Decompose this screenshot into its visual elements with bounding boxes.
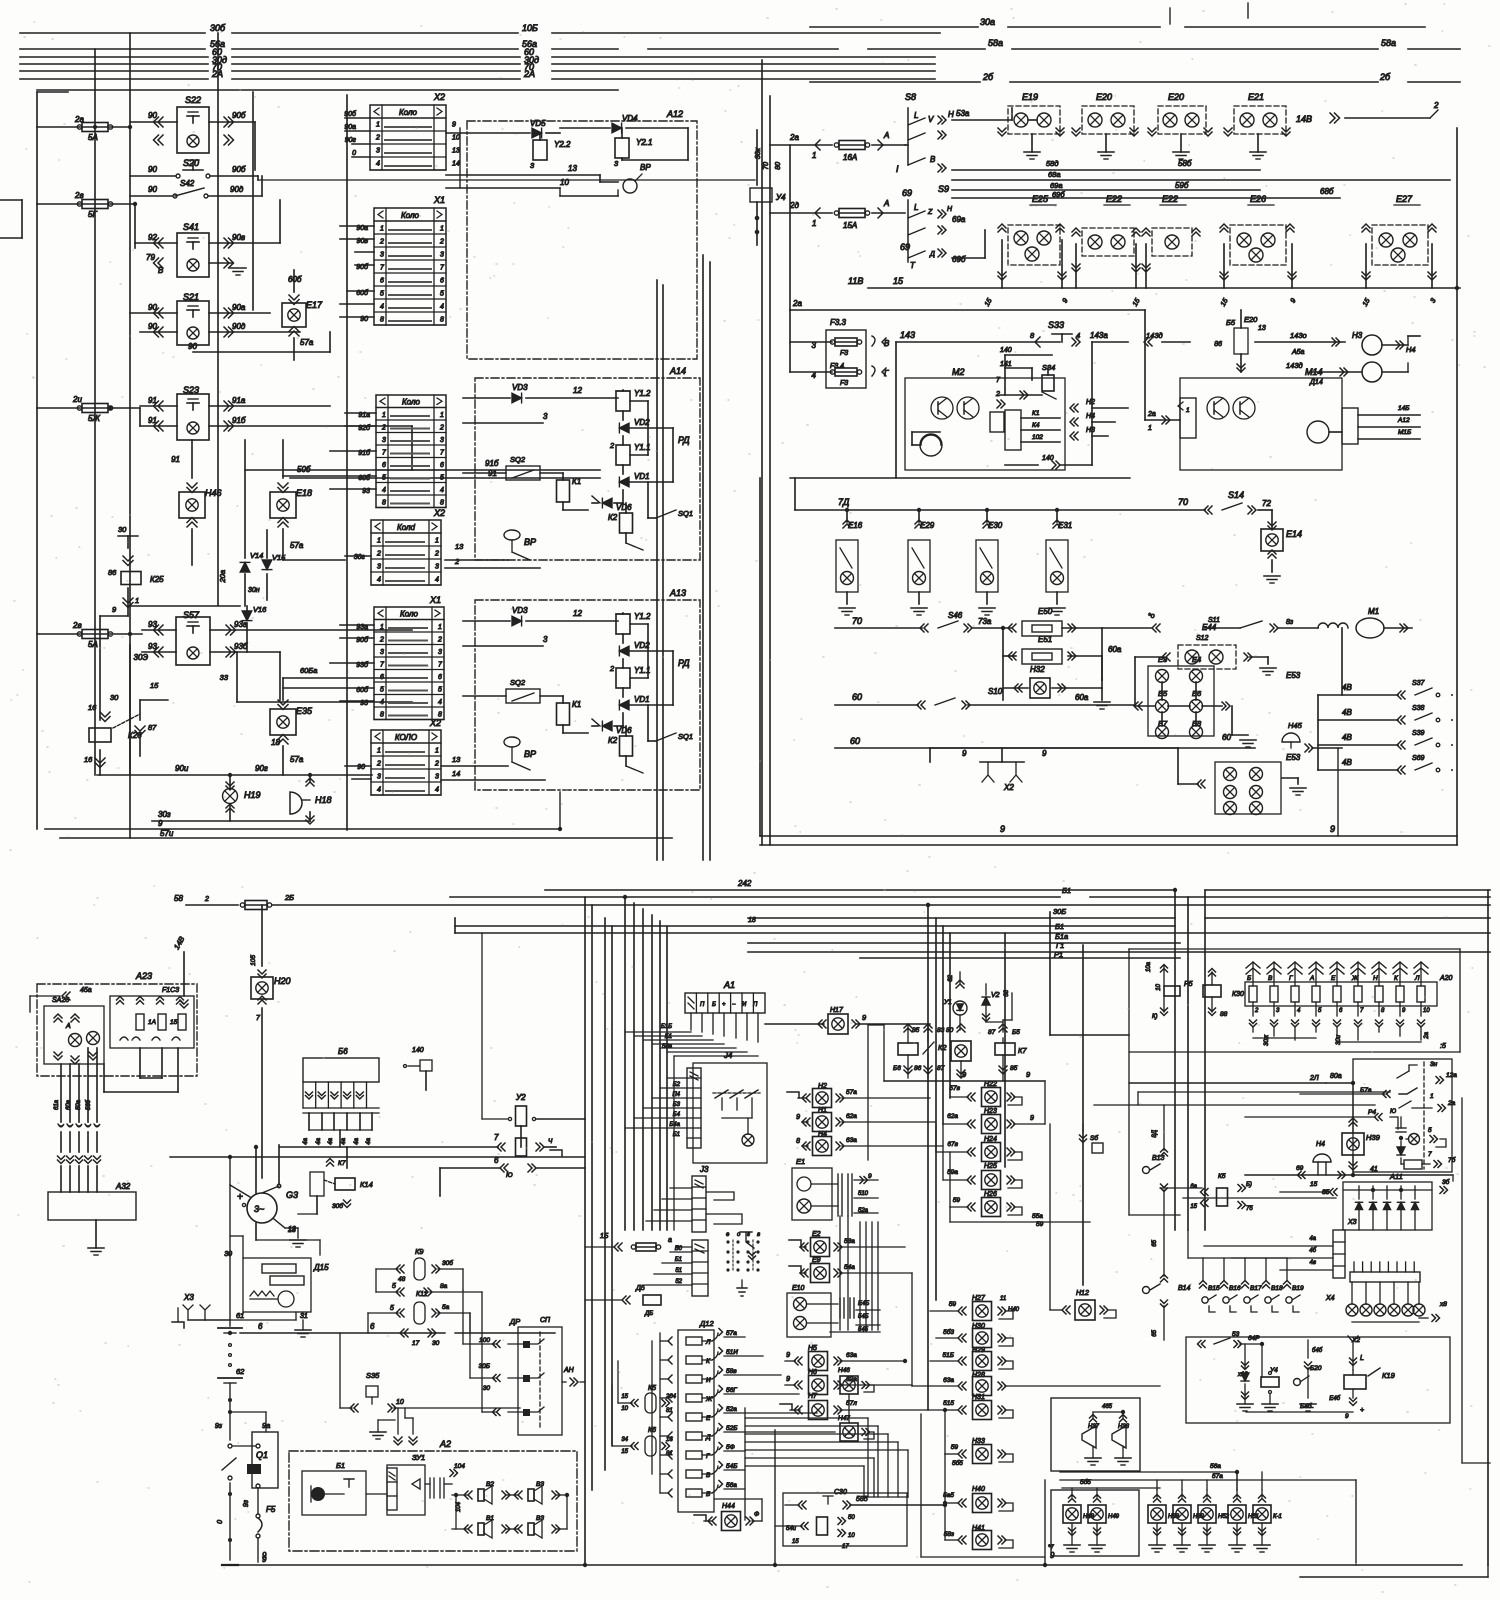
svg-text:5: 5 [440, 291, 444, 298]
svg-text:Е19: Е19 [1022, 92, 1038, 102]
svg-text:Е6: Е6 [1192, 689, 1202, 698]
svg-text:1: 1 [812, 151, 816, 160]
wire bundle below E1 [859, 1222, 861, 1330]
svg-text:58в: 58в [726, 1368, 737, 1375]
svg-text:К1: К1 [1032, 410, 1040, 417]
svg-text:Н49: Н49 [1108, 1514, 1120, 1520]
svg-text:10: 10 [1423, 1008, 1430, 1014]
svg-text:Н: Н [947, 206, 953, 213]
svg-text:143д: 143д [1146, 331, 1163, 340]
svg-text:8: 8 [796, 1138, 800, 1145]
svg-text:К6: К6 [648, 1427, 656, 1434]
svg-text:Н3: Н3 [1352, 331, 1363, 340]
vertical trunk x625-667 table feeders [624, 897, 626, 1230]
wire bus 18 [455, 925, 1175, 927]
svg-text:100: 100 [479, 1337, 490, 1344]
svg-text:Е22: Е22 [1162, 194, 1178, 204]
svg-text:54и: 54и [786, 1526, 797, 1532]
assembly A23 dash border [37, 984, 197, 1076]
lamp Н17 [765, 1023, 824, 1025]
svg-text:SQ1: SQ1 [678, 509, 693, 518]
svg-text:93а: 93а [234, 620, 248, 629]
relay К7b [995, 1043, 1015, 1055]
svg-text:3: 3 [543, 635, 548, 644]
svg-text:51И: 51И [726, 1349, 738, 1356]
svg-text:Е21: Е21 [1248, 92, 1264, 102]
svg-text:Н20: Н20 [274, 976, 291, 986]
svg-text:5: 5 [440, 475, 444, 482]
svg-text:9: 9 [262, 1555, 267, 1564]
svg-text:57а: 57а [1212, 1473, 1223, 1480]
relay К8 [898, 1043, 918, 1055]
svg-text:30б: 30б [332, 1202, 343, 1210]
svg-text:В18: В18 [1271, 1285, 1283, 1292]
svg-text:Н32: Н32 [1030, 665, 1045, 674]
svg-text:Б5: Б5 [1012, 1029, 1020, 1036]
svg-text:2: 2 [609, 664, 615, 673]
diode А11 pin [1397, 1202, 1404, 1209]
steering switch ВР mid [504, 530, 520, 540]
fuse панель В [1270, 986, 1278, 1002]
svg-text:9: 9 [1030, 1115, 1034, 1122]
svg-text:30б: 30б [210, 23, 226, 33]
svg-text:Н3: Н3 [1086, 427, 1095, 434]
svg-text:Х1: Х1 [429, 595, 441, 605]
wire 2а M14 region [1144, 310, 1146, 420]
svg-text:57л: 57л [846, 1400, 857, 1407]
svg-text:81: 81 [666, 1451, 673, 1457]
svg-text:К5: К5 [648, 1385, 656, 1392]
wire bus Р1 [860, 957, 1180, 959]
svg-text:В3: В3 [536, 1481, 544, 1488]
svg-text:30: 30 [483, 1385, 491, 1392]
svg-text:90д: 90д [230, 185, 244, 194]
svg-text:VD1: VD1 [634, 472, 650, 481]
resistor Д12 row Д [668, 1432, 672, 1440]
diode V15 [262, 560, 272, 570]
svg-text:В3: В3 [536, 1515, 544, 1522]
svg-text:Б1: Б1 [675, 1257, 682, 1263]
svg-text:7: 7 [380, 265, 385, 272]
svg-text:15: 15 [893, 276, 904, 286]
svg-text:8: 8 [380, 712, 384, 719]
motor H3 [1362, 335, 1382, 355]
svg-text:30ж: 30ж [1264, 1034, 1270, 1046]
assembly А2 dash border [289, 1451, 577, 1551]
svg-text:30и: 30и [1336, 1034, 1342, 1045]
svg-text:А20: А20 [1439, 975, 1453, 982]
svg-text:15: 15 [621, 1449, 628, 1455]
svg-text:Ж: Ж [705, 1396, 713, 1403]
svg-text:9: 9 [962, 749, 967, 758]
svg-text:5б5: 5б5 [1080, 1478, 1091, 1486]
svg-text:Ж: Ж [1351, 975, 1359, 982]
wires 80а 30а long rails [1138, 1091, 1390, 1093]
diode V2 [982, 997, 990, 1005]
svg-text:69: 69 [1296, 1165, 1304, 1172]
svg-text:16: 16 [84, 755, 93, 764]
motor block M2 border [905, 378, 1065, 470]
svg-text:Н28: Н28 [972, 1372, 985, 1379]
svg-text:6: 6 [258, 1322, 263, 1331]
svg-text:П: П [700, 1002, 705, 1008]
svg-text:Б1: Б1 [336, 1461, 345, 1470]
svg-text:93: 93 [148, 620, 157, 629]
svg-text:6: 6 [438, 674, 442, 681]
svg-text:К25: К25 [150, 575, 164, 584]
svg-text:50: 50 [848, 1515, 855, 1521]
buzzer ВР A12 [623, 179, 637, 193]
wire 33 net [236, 652, 238, 702]
lamp Н48 [1069, 1499, 1076, 1503]
svg-text:88: 88 [1220, 1011, 1228, 1018]
svg-text:Х3: Х3 [183, 1293, 194, 1302]
svg-text:В16: В16 [1229, 1285, 1241, 1292]
svg-text:2: 2 [381, 425, 386, 432]
svg-text:Б4б: Б4б [1300, 1402, 1312, 1410]
svg-text:465: 465 [1102, 1404, 1113, 1410]
svg-text:80: 80 [946, 1027, 954, 1034]
vertical trunk x605 [604, 918, 606, 1470]
switch box right [1353, 1059, 1452, 1172]
svg-text:4: 4 [377, 787, 381, 794]
fuse панель Г [1291, 986, 1299, 1002]
speaker В1 [468, 1525, 472, 1533]
svg-text:Н: Н [948, 110, 954, 119]
lamp signal [1360, 1304, 1372, 1316]
svg-text:86: 86 [108, 568, 117, 577]
ground S41 [209, 262, 232, 264]
svg-text:А1: А1 [723, 980, 735, 990]
svg-text:Ѕб: Ѕб [1090, 1134, 1098, 1142]
vertical trunk x1083 [1082, 945, 1084, 1285]
svg-text:4а: 4а [366, 1137, 372, 1144]
motor H4 [1362, 362, 1382, 382]
wire 11В 15 rail [868, 287, 1460, 289]
svg-text:S14: S14 [1228, 490, 1244, 500]
motor M14 circle [1307, 421, 1329, 443]
svg-text:Л: Л [1414, 975, 1420, 982]
wire relay group links [622, 634, 624, 643]
svg-text:7: 7 [256, 1015, 261, 1022]
switch S15 [1082, 1132, 1084, 1285]
svg-text:Y2.2: Y2.2 [554, 140, 571, 149]
svg-text:30к: 30к [755, 147, 762, 159]
wire verticals under lamp rows [1001, 240, 1003, 288]
svg-text:80: 80 [775, 162, 782, 170]
svg-text:К: К [706, 1358, 711, 1365]
svg-text:3: 3 [382, 437, 386, 444]
svg-text:Н4: Н4 [1316, 1141, 1325, 1148]
svg-text:69б: 69б [952, 255, 966, 264]
fuse панель К [1396, 986, 1404, 1002]
svg-text:Н7: Н7 [808, 1393, 818, 1400]
assembly A12 dash border [467, 121, 697, 359]
svg-text:54а: 54а [844, 1264, 855, 1271]
svg-text:8: 8 [440, 317, 444, 324]
connector J5 lower [692, 1240, 708, 1296]
svg-text:5Ж: 5Ж [88, 414, 100, 423]
diode А11 pin [1411, 1202, 1418, 1209]
svg-text:Р5: Р5 [1184, 981, 1193, 988]
svg-text:2б: 2б [982, 72, 994, 82]
svg-text:6: 6 [440, 462, 444, 469]
relay Y1.2 [616, 614, 630, 634]
svg-text:585: 585 [856, 1496, 868, 1503]
svg-text:У2: У2 [515, 1093, 526, 1102]
svg-text:90: 90 [148, 303, 157, 312]
svg-text:91: 91 [148, 416, 157, 425]
lamp signal [1402, 1304, 1414, 1316]
svg-text:60а: 60а [1108, 645, 1122, 654]
svg-text:59: 59 [953, 1197, 961, 1204]
svg-text:8: 8 [1030, 331, 1035, 340]
svg-text:S8: S8 [905, 92, 916, 102]
svg-text:50б: 50б [297, 465, 311, 474]
svg-text:2: 2 [454, 557, 460, 566]
lamp H46 [179, 492, 205, 518]
svg-text:в: в [757, 1232, 760, 1238]
svg-text:VD5: VD5 [530, 119, 546, 128]
svg-text:30Э: 30Э [134, 653, 149, 662]
svg-text:87: 87 [937, 1065, 945, 1072]
svg-text:0: 0 [352, 150, 356, 157]
svg-text:А14: А14 [669, 366, 686, 376]
svg-text:3: 3 [438, 649, 442, 656]
svg-text:РД: РД [678, 658, 690, 668]
svg-text:1: 1 [440, 226, 444, 233]
svg-text:3: 3 [435, 774, 439, 781]
svg-text:58а: 58а [662, 1044, 673, 1050]
svg-text:Коло: Коло [402, 398, 421, 407]
resistor Д12 row Ж [668, 1394, 672, 1402]
svg-text:G3: G3 [286, 1190, 298, 1200]
svg-text:РД: РД [678, 435, 690, 445]
svg-text:15: 15 [150, 681, 159, 690]
svg-text:3: 3 [377, 774, 381, 781]
svg-text:−: − [732, 1002, 736, 1008]
svg-text:87: 87 [148, 723, 157, 732]
svg-text:10: 10 [848, 1533, 855, 1539]
svg-text:Е20: Е20 [1244, 315, 1258, 324]
transistor symbols M2 [931, 397, 953, 419]
svg-text:10: 10 [1156, 983, 1162, 990]
lamp inside J4 [742, 1134, 754, 1146]
relay К19 [1344, 1375, 1366, 1389]
wire 60 bottom rail [835, 747, 1255, 749]
svg-text:90и: 90и [175, 764, 189, 773]
svg-text:13: 13 [452, 148, 460, 155]
svg-text:140: 140 [1000, 347, 1012, 354]
wire F1C3 drops [139, 1048, 141, 1078]
diode VD3 [512, 393, 522, 403]
vertical trunk x1175-1190 [1174, 890, 1176, 1230]
svg-text:е: е [726, 1232, 730, 1238]
svg-text:2: 2 [439, 239, 444, 246]
lamp Н38 [1154, 1499, 1161, 1503]
wire 90 below S21 [193, 351, 330, 353]
resistor ladder Д12 box [678, 1330, 714, 1512]
sensor В19 [1284, 1285, 1291, 1289]
lamp Н39 [1179, 1499, 1186, 1503]
wire top bus 30д [20, 63, 208, 65]
svg-text:Е51: Е51 [1038, 635, 1052, 644]
svg-text:3: 3 [614, 159, 619, 168]
svg-text:Х4: Х4 [1325, 1295, 1335, 1302]
wire 60а S11 rail [1205, 627, 1240, 629]
grounds near J5 [737, 1288, 747, 1296]
svg-text:9: 9 [862, 1013, 867, 1022]
svg-text:13: 13 [288, 1226, 296, 1233]
wire left frame small stub [0, 199, 22, 201]
svg-text:Коло: Коло [399, 108, 418, 117]
svg-text:85: 85 [912, 1027, 920, 1034]
svg-text:VD3: VD3 [512, 383, 528, 392]
svg-text:1: 1 [380, 226, 384, 233]
svg-text:52: 52 [675, 1279, 682, 1285]
svg-text:62а: 62а [947, 1113, 958, 1120]
svg-text:3: 3 [376, 148, 380, 155]
svg-text:Ю: Ю [1390, 1109, 1396, 1115]
relay Y2.1 [615, 138, 629, 158]
svg-text:Х3: Х3 [1347, 1219, 1357, 1226]
svg-text:4а: 4а [341, 1137, 347, 1144]
diode А11 pin [1355, 1202, 1362, 1209]
svg-text:В: В [884, 339, 890, 348]
lamp signal [1413, 1304, 1425, 1316]
svg-text:30Б: 30Б [479, 1363, 490, 1370]
svg-text:2: 2 [609, 441, 615, 450]
svg-text:ВР: ВР [524, 537, 536, 547]
svg-text:16: 16 [88, 703, 97, 712]
svg-text:2Б: 2Б [284, 893, 294, 902]
lamp Н52 [1204, 1499, 1211, 1503]
resistor Д12 row Г [668, 1451, 672, 1459]
svg-text:90а: 90а [344, 124, 356, 131]
svg-text:2а: 2а [1424, 1031, 1430, 1039]
svg-text:51: 51 [675, 1268, 682, 1274]
svg-text:х8: х8 [1439, 1301, 1447, 1308]
svg-text:Е18: Е18 [296, 488, 312, 498]
svg-text:8: 8 [380, 317, 384, 324]
fuse block F3.3 F3.4 [826, 330, 866, 388]
svg-text:В: В [1268, 975, 1273, 982]
svg-text:А11: А11 [1389, 1172, 1403, 1181]
relay K2 [620, 736, 633, 756]
svg-text:90: 90 [148, 111, 157, 120]
svg-text:60а: 60а [66, 1099, 72, 1110]
svg-text:Б1: Б1 [665, 1034, 672, 1040]
svg-text:S22: S22 [185, 95, 201, 105]
svg-text:30: 30 [224, 1251, 232, 1258]
svg-text:4в: 4в [1310, 1260, 1316, 1266]
svg-text:В17: В17 [1250, 1285, 1262, 1292]
svg-text:К-1: К-1 [1273, 1514, 1282, 1520]
wire 60 S10 rail [835, 704, 918, 706]
svg-text:СП: СП [540, 1317, 551, 1324]
switch ТУ near J3 [740, 1232, 754, 1248]
svg-text:34: 34 [621, 1437, 628, 1443]
svg-text:7б: 7б [1448, 1156, 1456, 1164]
wire links E53 to rail [1337, 748, 1339, 836]
svg-text:63а: 63а [846, 1352, 857, 1359]
svg-text:1: 1 [382, 412, 386, 419]
wire 70 S46 rail [835, 627, 922, 629]
svg-text:Н46: Н46 [205, 488, 222, 498]
svg-text:VD1: VD1 [634, 695, 650, 704]
diode VD5 [532, 128, 542, 138]
svg-text:Е22: Е22 [1106, 194, 1122, 204]
svg-text:56а: 56а [726, 1482, 737, 1489]
svg-text:62: 62 [236, 1367, 245, 1376]
svg-text:7: 7 [380, 662, 385, 669]
lamp E18 [270, 492, 296, 518]
wire top bus 2А [20, 78, 208, 80]
wire 54а entry [775, 1525, 802, 1527]
lamp E17 [282, 303, 306, 327]
wire comb collector [309, 1129, 372, 1131]
fuse панель Н [1375, 986, 1383, 1002]
svg-text:70: 70 [852, 616, 862, 626]
svg-text:30б: 30б [442, 1259, 453, 1267]
svg-text:85: 85 [1010, 1065, 1018, 1072]
svg-text:90д: 90д [232, 322, 246, 331]
svg-text:4а: 4а [303, 1137, 309, 1144]
svg-text:В14: В14 [1178, 1285, 1191, 1292]
wire 56а 57а rails [1060, 1471, 1237, 1473]
svg-text:3н: 3н [1430, 1061, 1438, 1068]
svg-text:Е14: Е14 [1286, 529, 1302, 539]
svg-text:Х2: Х2 [433, 92, 445, 102]
svg-text:8: 8 [382, 500, 386, 507]
svg-text:7Д: 7Д [838, 497, 850, 507]
svg-text:52а: 52а [726, 1406, 737, 1413]
svg-text:8Д: 8Д [1152, 1129, 1158, 1137]
svg-text:72: 72 [1262, 499, 1271, 508]
svg-text:Н19: Н19 [244, 790, 261, 800]
svg-text:67в: 67в [947, 1141, 958, 1148]
svg-text::5: :5 [1440, 1043, 1446, 1050]
svg-text:2: 2 [376, 761, 381, 768]
svg-text:VD3: VD3 [512, 606, 528, 615]
svg-text:8а: 8а [440, 1283, 448, 1290]
svg-text:Е4б: Е4б [1329, 1396, 1340, 1402]
svg-text:15: 15 [1310, 1181, 1318, 1188]
svg-text:1А: 1А [148, 1019, 156, 1026]
wire 9 bottom rail right half [760, 835, 1457, 837]
svg-text:15: 15 [1190, 1204, 1197, 1210]
lamp Н39 [1342, 1133, 1364, 1155]
svg-text:45а: 45а [80, 987, 92, 994]
svg-text:58: 58 [174, 894, 183, 903]
switch S39 [1318, 744, 1398, 746]
svg-text:60а: 60а [1075, 693, 1089, 702]
wire bundle staircase joins [840, 1329, 878, 1331]
svg-text:F3.4: F3.4 [830, 363, 844, 370]
wire 13 10 to BP [446, 174, 600, 176]
svg-text:У1: У1 [943, 999, 952, 1006]
wire bus Б1 [455, 932, 1490, 934]
svg-text:143а: 143а [1090, 331, 1108, 340]
svg-text:Е26: Е26 [1250, 194, 1266, 204]
diode chain right box [1396, 1127, 1406, 1129]
svg-text:2: 2 [204, 896, 209, 903]
lamp signal [1346, 1304, 1358, 1316]
svg-text:А: А [883, 199, 889, 208]
svg-text:2а: 2а [792, 299, 802, 308]
svg-text:Д12: Д12 [699, 1319, 714, 1328]
svg-text:30н: 30н [248, 587, 260, 594]
